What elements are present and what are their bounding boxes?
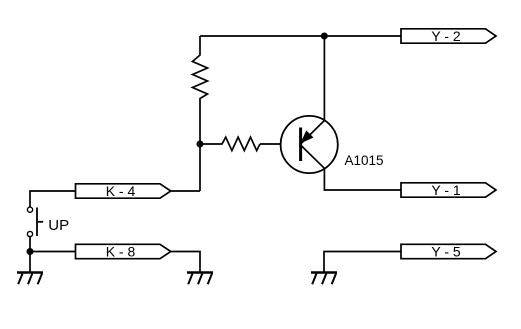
transistor Q1 (A1015, PNP) [281,116,338,173]
junction dot (base node) [197,141,204,148]
resistor R2 (base, horizontal) [200,137,260,150]
wire K-4 right to base-node column [171,190,200,192]
ground (Y-5) [311,273,337,285]
ground (left, switch) [17,273,43,285]
svg-text:A1015: A1015 [345,153,384,168]
connector K-4 [76,183,171,199]
svg-text:UP: UP [48,217,69,234]
wire switch to ground [29,237,31,273]
svg-text:Y - 1: Y - 1 [431,182,461,198]
svg-text:K - 4: K - 4 [106,183,136,199]
svg-text:Y - 2: Y - 2 [431,28,461,44]
wire K-8 right to ground [171,252,200,273]
svg-text:K - 8: K - 8 [106,244,136,260]
wire Y-5 to ground [324,252,401,273]
resistor R1 (vertical) with leads [193,36,208,191]
wire emitter to top rail [323,36,325,121]
junction dot (K-8 node) [27,248,34,255]
connector K-8 [76,244,171,260]
wire K-8 left [30,251,76,253]
connector Y-5 [401,244,496,260]
ground (K-8) [187,273,213,285]
junction dot (emitter / Y-2 node) [321,33,328,40]
connector Y-1 [401,182,496,198]
wire K-4 left to switch [30,191,76,207]
wire base resistor to transistor base [260,143,302,145]
wire top rail [200,35,401,37]
connector Y-2 [401,28,496,44]
svg-text:Y - 5: Y - 5 [431,244,461,260]
wire collector to Y-1 [324,168,401,190]
switch SW1 (push button) [27,207,43,237]
